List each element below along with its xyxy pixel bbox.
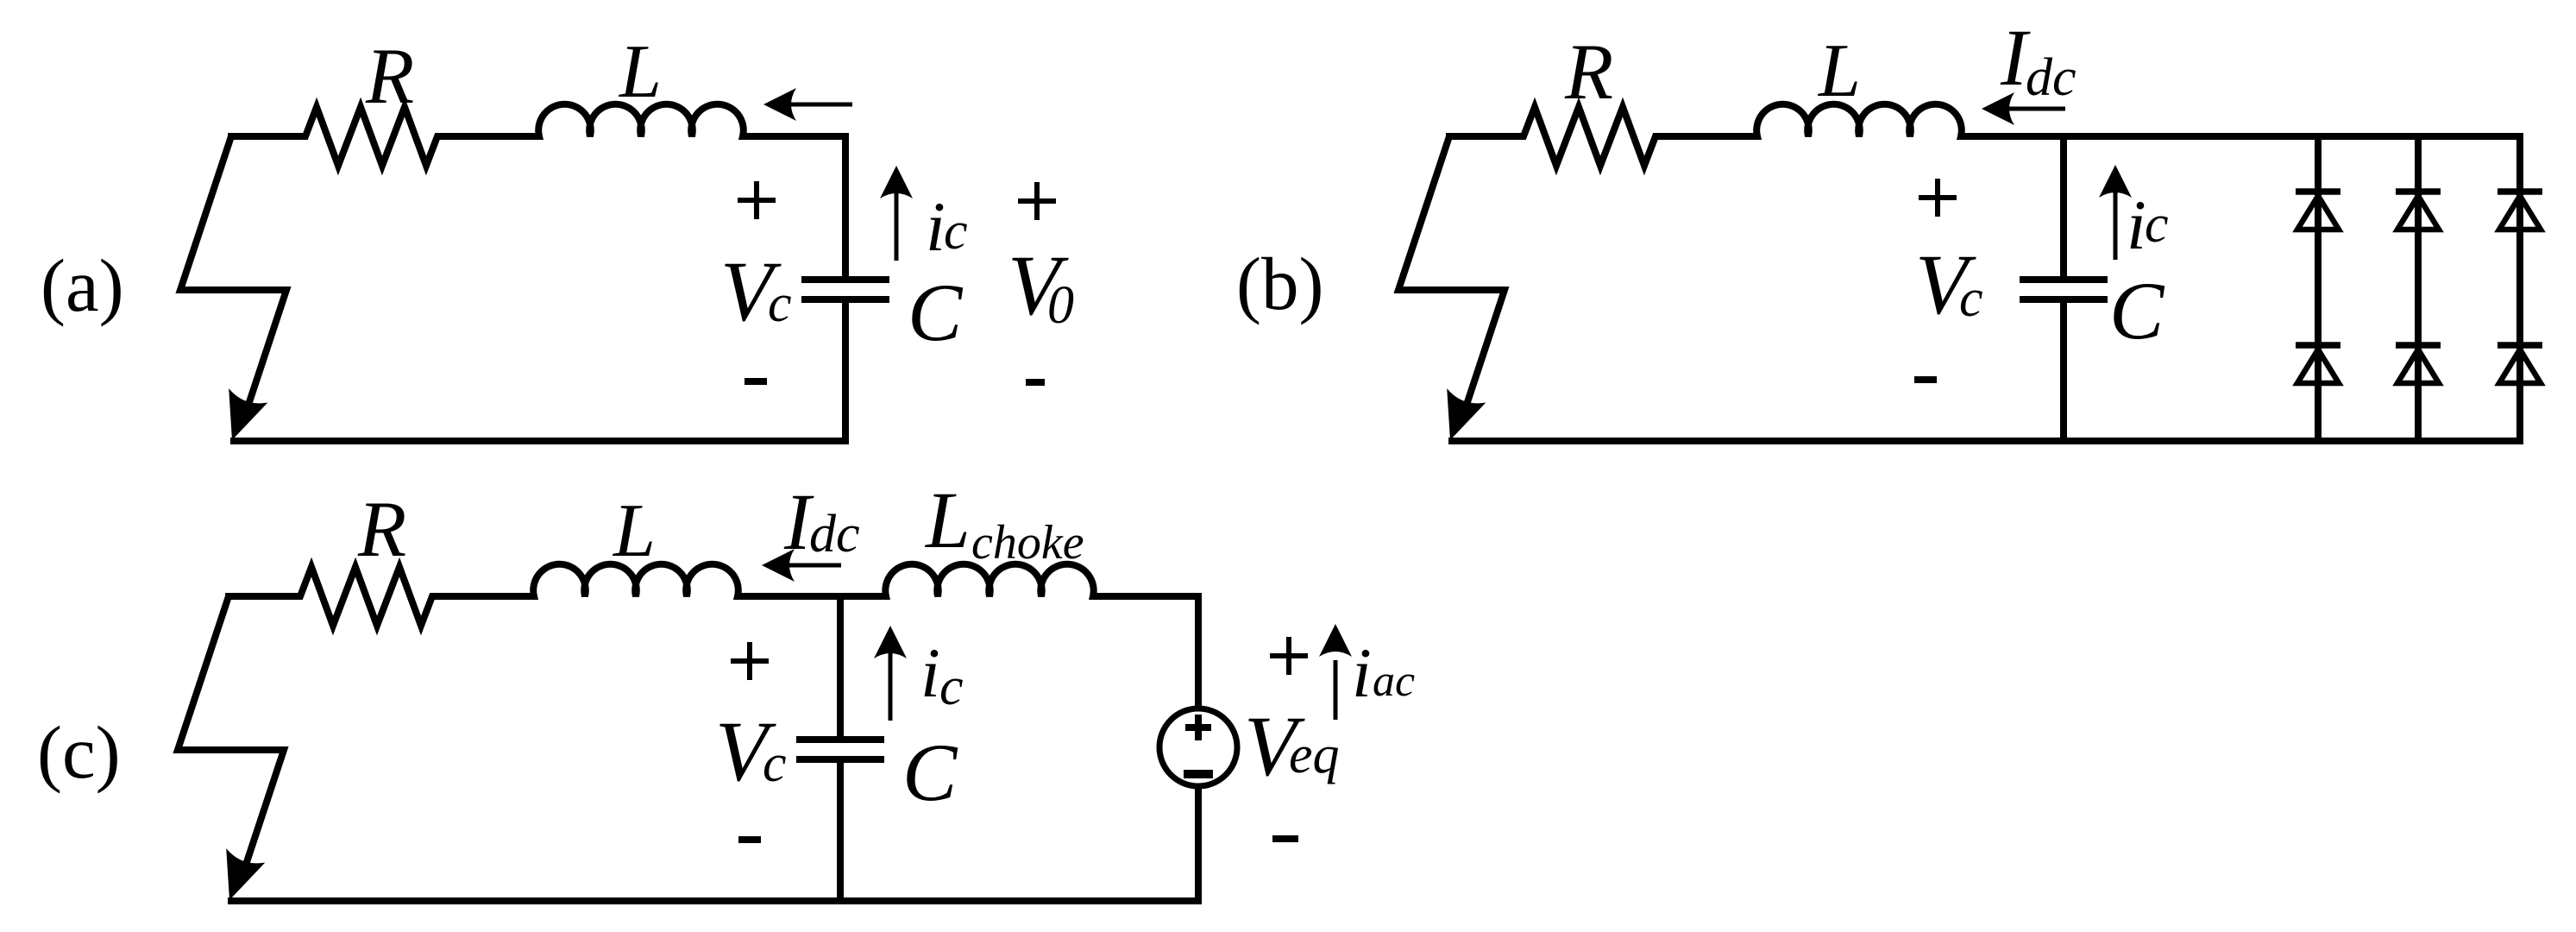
- wire: c top-right + drop to source (c): [1091, 596, 1198, 710]
- svg-text:i: i: [926, 187, 946, 266]
- wire: a below capacitor: [842, 298, 849, 441]
- svg-text:i: i: [2127, 186, 2146, 264]
- svg-text:L: L: [1817, 29, 1861, 113]
- svg-text:L: L: [618, 30, 662, 114]
- svg-text:c: c: [939, 658, 964, 716]
- wire: c top-left segment: [225, 593, 301, 600]
- diode D1 upper leg1: [2296, 188, 2340, 195]
- plus inside source (c): [1185, 715, 1211, 740]
- svg-text:R: R: [357, 485, 406, 573]
- diode D4 lower leg2: [2396, 342, 2441, 349]
- diode bridge leg 2 (b): [2415, 136, 2422, 441]
- inductor L (c): [525, 564, 746, 596]
- resistor R (b): [1513, 107, 1666, 166]
- plus sign V0 (a): [1018, 182, 1056, 220]
- diode bridge leg 1 (b): [2315, 136, 2322, 441]
- minus sign Veq (c): [1272, 835, 1298, 842]
- capacitor C (a) plates: [801, 280, 889, 299]
- svg-text:dc: dc: [2026, 48, 2077, 107]
- svg-text:choke: choke: [971, 516, 1084, 570]
- svg-text:R: R: [365, 32, 414, 120]
- current arrow pointing left (a): [787, 103, 852, 107]
- resistor R (c): [290, 567, 443, 626]
- inductor L (a): [531, 104, 751, 136]
- plus sign Vc (b): [1919, 179, 1957, 217]
- surge source arrow (lightning bolt), circuit a: [180, 136, 286, 410]
- svg-text:i: i: [920, 633, 940, 712]
- svg-text:ac: ac: [1373, 657, 1415, 706]
- svg-text:c: c: [2145, 195, 2169, 254]
- surge source arrow (lightning bolt), circuit c: [178, 596, 284, 870]
- wire: b top bus to bridge: [1959, 133, 2523, 140]
- capacitor branch wire (b): [2060, 136, 2067, 441]
- resistor R (a): [295, 107, 448, 166]
- diode D6 lower leg3: [2497, 342, 2542, 349]
- plus sign Vc (a): [738, 181, 776, 219]
- wire: a bottom return: [230, 438, 849, 444]
- wire: a top-left segment: [228, 133, 306, 140]
- i_ac arrow (c): [1334, 660, 1338, 720]
- svg-text:L: L: [612, 489, 656, 573]
- svg-text:R: R: [1564, 28, 1613, 116]
- wire: b top-left segment: [1446, 133, 1524, 140]
- svg-text:C: C: [902, 727, 958, 818]
- wire: c bottom return: [228, 897, 1202, 904]
- svg-text:i: i: [1352, 633, 1372, 712]
- capacitor C (b) plates: [2020, 280, 2108, 299]
- diode bridge leg 3 / right edge (b): [2516, 136, 2523, 441]
- svg-text:(c): (c): [37, 710, 121, 794]
- wire: b bottom return: [1448, 438, 2523, 444]
- minus sign V0 (a): [1026, 379, 1045, 386]
- wire: b between R and L: [1654, 133, 1759, 140]
- ac source V_eq circle (c): [1159, 708, 1237, 786]
- diode D5 upper leg3: [2497, 188, 2542, 195]
- svg-text:c: c: [763, 734, 787, 793]
- minus inside source (c): [1184, 770, 1213, 778]
- inductor L_choke (c): [877, 564, 1102, 596]
- svg-text:dc: dc: [809, 505, 860, 564]
- i_c arrow (b): [2114, 191, 2118, 260]
- i_c arrow (a): [895, 192, 899, 261]
- svg-text:C: C: [2109, 265, 2165, 356]
- svg-text:(a): (a): [41, 243, 124, 327]
- svg-text:C: C: [908, 267, 964, 358]
- minus sign Vc (c): [738, 836, 761, 843]
- svg-text:c: c: [944, 202, 968, 261]
- I_dc arrow (c): [786, 564, 841, 568]
- wire: c top middle (through junction): [736, 593, 888, 600]
- svg-text:c: c: [768, 274, 792, 333]
- diode D2 lower leg1: [2296, 342, 2340, 349]
- inductor L (b): [1749, 104, 1970, 136]
- capacitor branch wire (c): [837, 596, 844, 901]
- svg-text:L: L: [924, 476, 971, 565]
- svg-text:(b): (b): [1236, 242, 1323, 325]
- svg-text:eq: eq: [1289, 726, 1340, 784]
- minus sign Vc (a): [745, 378, 767, 385]
- surge source arrow (lightning bolt), circuit b: [1398, 136, 1505, 410]
- i_c arrow (c): [889, 652, 893, 721]
- plus sign Vc (c): [731, 642, 769, 680]
- wire: a between R and L: [436, 133, 541, 140]
- wire: c below source: [1195, 784, 1202, 901]
- svg-text:c: c: [1959, 269, 1983, 328]
- capacitor C (c) plates: [796, 740, 884, 759]
- plus sign Veq (c): [1270, 637, 1308, 675]
- svg-text:0: 0: [1047, 276, 1074, 335]
- I_dc arrow (b): [2006, 107, 2065, 111]
- wire: c between R and L: [430, 593, 536, 600]
- wire: a top-right + right drop to capacitor: [741, 136, 845, 281]
- diode D3 upper leg2: [2396, 188, 2441, 195]
- minus sign Vc (b): [1914, 376, 1937, 383]
